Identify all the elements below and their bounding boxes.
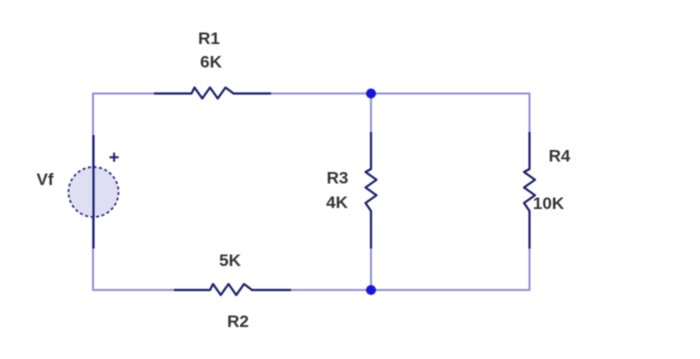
resistor R2 (bottom, horizontal zigzag with leads) (174, 284, 291, 295)
svg-text:6K: 6K (200, 53, 222, 72)
voltage source Vf lead (vertical pin wire) (92, 135, 94, 249)
wire top net, segment from R1 right pin through node A to R4 branch (234, 93, 530, 95)
resistor R4 (right branch, vertical zigzag with leads) (524, 132, 535, 249)
svg-text:R2: R2 (227, 312, 249, 331)
node B junction dot (bottom, R2/R3/R4 net) (366, 285, 376, 295)
resistor R3 (middle branch, vertical zigzag with leads) (366, 132, 377, 249)
svg-text:R4: R4 (549, 147, 571, 166)
resistor R1 (top, horizontal zigzag with leads) (154, 88, 271, 99)
voltage source Vf body (dashed circle) (69, 167, 119, 217)
wire right vertical, segment from top net to R4 top pin (529, 94, 531, 170)
wire top net, segment from source to R1 left pin (93, 93, 192, 95)
svg-text:5K: 5K (219, 251, 241, 270)
wire left vertical segment (source branch) (92, 94, 94, 291)
wire middle vertical, segment from node A to R3 top pin (370, 94, 372, 170)
svg-text:R1: R1 (198, 29, 220, 48)
wire bottom net, segment from source to R2 left pin (93, 289, 210, 291)
wire middle vertical, segment from R3 bottom pin to node B (370, 211, 372, 290)
svg-text:Vf: Vf (37, 170, 54, 189)
voltage source Vf plus polarity mark (110, 153, 119, 162)
svg-text:4K: 4K (326, 193, 348, 212)
svg-text:10K: 10K (533, 194, 565, 213)
wire right vertical, segment from R4 bottom pin to bottom net (529, 211, 531, 290)
wire bottom net, segment from R2 right pin through node B to R4 branch (252, 289, 530, 291)
svg-text:R3: R3 (327, 169, 349, 188)
node A junction dot (top, R1/R3/R4 net) (366, 89, 376, 99)
